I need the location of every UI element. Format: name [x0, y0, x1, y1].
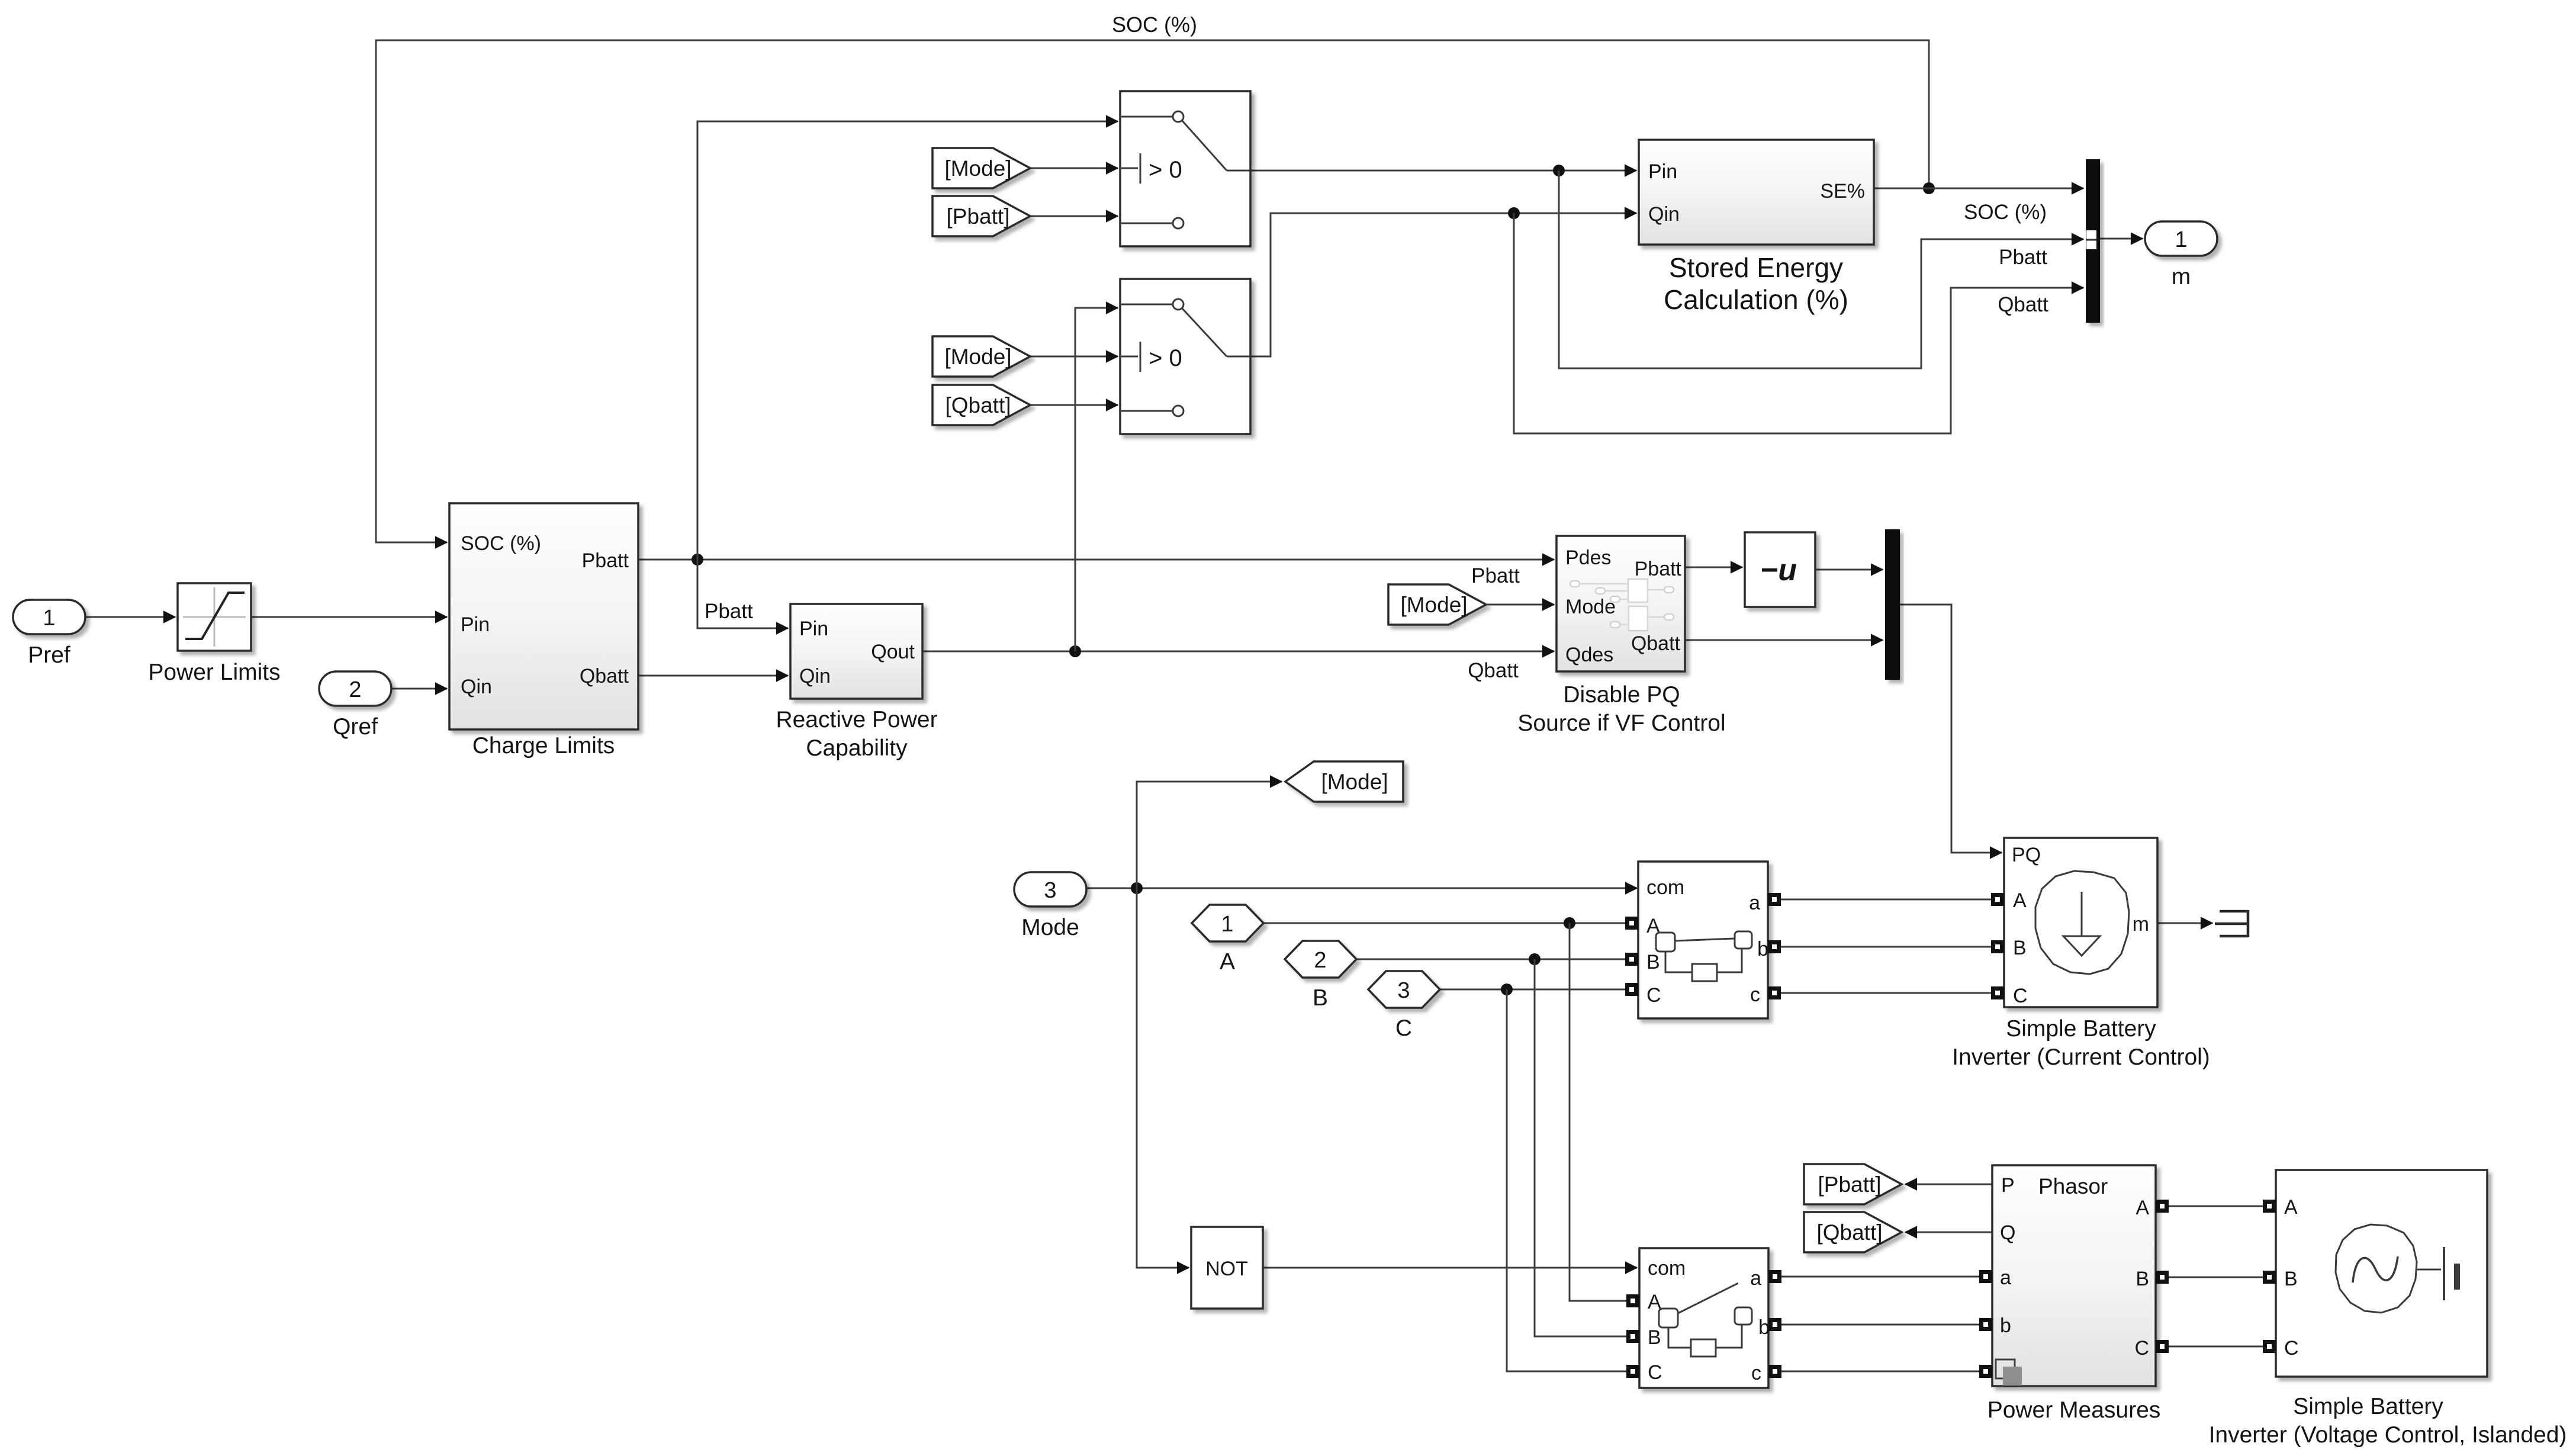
wire phase A branch down to Breaker2 A — [1570, 923, 1626, 1301]
svg-text:Qbatt: Qbatt — [1631, 632, 1681, 655]
svg-text:com: com — [1646, 876, 1684, 899]
block Power Limits (saturation) — [178, 583, 251, 651]
svg-text:B: B — [1313, 985, 1328, 1011]
node phase A junction — [1564, 917, 1575, 929]
label Charge Limits — [472, 733, 615, 758]
wire Power Measures P to Goto Pbatt — [1905, 1184, 1992, 1185]
switch block Switch1 — [1120, 91, 1250, 246]
wire Disable PQ Pbatt to gain — [1685, 567, 1742, 568]
svg-text:Pin: Pin — [1648, 160, 1677, 183]
svg-text:C: C — [2134, 1337, 2149, 1359]
wire From Mode to Switch2 control — [1030, 356, 1118, 358]
svg-text:Disable PQ: Disable PQ — [1563, 682, 1680, 708]
svg-text:Mode: Mode — [1021, 915, 1079, 940]
svg-text:a: a — [2000, 1267, 2011, 1289]
label Qbatt near Qdes — [1468, 659, 1519, 682]
label Disable PQ Source if VF Control — [1517, 682, 1725, 736]
wire phase C branch down to Breaker2 C — [1507, 989, 1626, 1371]
svg-text:Calculation (%): Calculation (%) — [1664, 284, 1848, 315]
svg-text:SOC (%): SOC (%) — [1964, 201, 2047, 224]
node phase B junction — [1529, 953, 1541, 965]
svg-text:Pbatt: Pbatt — [1635, 558, 1682, 580]
svg-text:Pbatt: Pbatt — [1471, 564, 1520, 587]
from tag Pbatt (switch1) — [932, 196, 1030, 236]
switch block Switch2 — [1120, 279, 1250, 434]
goto tag Pbatt (right) — [1804, 1164, 1902, 1204]
label A — [1220, 949, 1235, 975]
wire Qref to Charge Limits Qin — [391, 688, 447, 690]
svg-text:Qbatt: Qbatt — [1468, 659, 1519, 682]
label C — [1395, 1015, 1412, 1041]
label Pbatt near mux — [1999, 246, 2047, 269]
svg-text:m: m — [2133, 913, 2149, 936]
block Disable PQ Source if VF Control — [1556, 536, 1685, 671]
node phase C junction — [1501, 983, 1513, 995]
svg-text:C: C — [1648, 1361, 1662, 1384]
svg-text:SOC (%): SOC (%) — [461, 532, 541, 555]
svg-text:> 0: > 0 — [1149, 345, 1182, 371]
svg-text:a: a — [1749, 892, 1760, 914]
label B — [1313, 985, 1328, 1011]
mux Mux1 — [2086, 159, 2100, 323]
breaker block Breaker1 — [1638, 862, 1768, 1018]
from tag Mode (switch2) — [932, 336, 1030, 377]
wire Qbatt loop to Mux1 input 3 — [1514, 213, 2083, 433]
svg-text:Source if VF Control: Source if VF Control — [1517, 711, 1725, 736]
svg-text:[Pbatt]: [Pbatt] — [947, 204, 1010, 229]
inport Pref — [13, 600, 85, 634]
wire From Pbatt to Switch1 input 3 — [1030, 216, 1118, 217]
wire Breaker2 b to Power Measures b — [1781, 1324, 1979, 1326]
svg-text:1: 1 — [43, 606, 55, 631]
wire SE% to Mux1 input 1 — [1874, 188, 2083, 189]
svg-text:A: A — [2284, 1196, 2298, 1219]
svg-text:c: c — [1751, 1362, 1761, 1384]
wire Breaker1 b to Inverter1 B — [1781, 946, 1991, 948]
node SOC junction on SE% wire — [1923, 182, 1935, 194]
svg-text:[Pbatt]: [Pbatt] — [1818, 1172, 1882, 1197]
hexagon port 3 C — [1368, 971, 1440, 1008]
svg-text:Qin: Qin — [461, 676, 492, 698]
svg-text:> 0: > 0 — [1149, 157, 1182, 183]
svg-text:3: 3 — [1397, 978, 1410, 1003]
svg-text:[Mode]: [Mode] — [944, 345, 1011, 369]
node Qout junction — [1069, 645, 1081, 657]
svg-text:Stored Energy: Stored Energy — [1669, 252, 1843, 283]
from tag Mode (switch1) — [932, 148, 1030, 188]
block Reactive Power Capability — [790, 604, 922, 699]
svg-text:Pbatt: Pbatt — [1999, 246, 2047, 269]
svg-text:B: B — [2284, 1268, 2298, 1290]
svg-text:Inverter (Voltage Control, Isl: Inverter (Voltage Control, Islanded) — [2209, 1422, 2567, 1448]
svg-text:b: b — [2000, 1314, 2011, 1337]
svg-text:a: a — [1750, 1267, 1761, 1290]
wire RPC Qout to Disable PQ Qdes — [922, 651, 1554, 653]
svg-text:NOT: NOT — [1205, 1258, 1248, 1280]
node Mode junction — [1131, 882, 1143, 894]
svg-text:Power Limits: Power Limits — [148, 660, 280, 685]
pads Breaker2 right a b c — [1768, 1270, 1781, 1378]
goto tag Qbatt (right) — [1804, 1212, 1902, 1252]
node Pin junction — [1553, 165, 1565, 176]
wire Power Limits to Charge Limits Pin — [251, 616, 447, 618]
hexagon port 2 B — [1285, 941, 1356, 978]
block Simple Battery Inverter (Voltage Control, Islanded) — [2276, 1170, 2487, 1377]
wire From Mode to Switch1 control — [1030, 168, 1118, 169]
svg-text:2: 2 — [349, 677, 361, 702]
svg-text:B: B — [2013, 937, 2027, 959]
wire Mux2 to inverter PQ — [1900, 605, 2002, 853]
wire Qout branch up to Switch2 input 1 — [1075, 308, 1118, 651]
wire From Mode to Disable PQ Mode — [1486, 604, 1554, 606]
svg-text:A: A — [2013, 889, 2027, 912]
svg-text:Qin: Qin — [799, 665, 831, 687]
NOT block — [1191, 1227, 1263, 1309]
wire Power Measures A to Inverter2 A — [2169, 1206, 2263, 1207]
svg-text:Capability: Capability — [806, 735, 908, 761]
wire Pbatt from Charge Limits to Disable PQ Pdes — [638, 559, 1554, 561]
terminator — [2215, 910, 2248, 937]
svg-text:1: 1 — [1221, 912, 1233, 937]
svg-text:PQ: PQ — [2012, 844, 2041, 866]
mux Mux2 — [1885, 529, 1900, 680]
wire Qbatt from Charge Limits to RPC Qin — [638, 675, 788, 677]
svg-text:[Qbatt]: [Qbatt] — [1816, 1220, 1882, 1245]
wire Breaker2 c to Power Measures c — [1781, 1371, 1979, 1373]
label Mode — [1021, 915, 1079, 940]
svg-text:C: C — [1646, 984, 1661, 1007]
pads Breaker1 right a b c — [1768, 893, 1781, 999]
svg-text:A: A — [1220, 949, 1235, 975]
svg-text:Pin: Pin — [799, 618, 828, 640]
svg-text:Pbatt: Pbatt — [582, 549, 629, 572]
svg-text:Reactive Power: Reactive Power — [776, 707, 937, 732]
pads Breaker1 left A B C — [1625, 917, 1638, 996]
svg-text:Q: Q — [2000, 1222, 2015, 1244]
label Pbatt near Pdes — [1471, 564, 1520, 587]
svg-text:Qout: Qout — [871, 641, 915, 663]
block Power Measures — [1992, 1165, 2156, 1386]
svg-text:b: b — [1758, 1316, 1770, 1339]
svg-text:Pdes: Pdes — [1565, 547, 1612, 569]
svg-text:[Qbatt]: [Qbatt] — [945, 393, 1011, 417]
svg-text:SOC (%): SOC (%) — [1112, 12, 1197, 37]
from tag Qbatt (switch2) — [932, 385, 1030, 425]
svg-text:m: m — [2172, 264, 2191, 290]
inport Qref — [319, 671, 391, 706]
wire Mode branch down to NOT — [1137, 888, 1189, 1268]
wire Power Measures C to Inverter2 C — [2169, 1346, 2263, 1348]
from tag Mode (Disable PQ) — [1388, 584, 1486, 625]
label Qref — [333, 714, 378, 740]
svg-text:Pref: Pref — [28, 642, 70, 668]
svg-text:Qbatt: Qbatt — [1998, 293, 2048, 316]
label SOC (%) near mux — [1964, 201, 2047, 224]
svg-text:Phasor: Phasor — [2038, 1174, 2108, 1198]
svg-text:B: B — [2136, 1268, 2149, 1290]
breaker block Breaker2 — [1639, 1248, 1770, 1388]
svg-text:Qref: Qref — [333, 714, 378, 740]
label Simple Battery Inverter (Current Control) — [1952, 1016, 2210, 1070]
svg-text:Qdes: Qdes — [1565, 644, 1613, 666]
block Charge Limits — [449, 503, 638, 729]
pads Power Measures right A B C — [2156, 1200, 2169, 1353]
label Pbatt near RPC — [705, 600, 753, 623]
svg-text:Qin: Qin — [1648, 203, 1680, 226]
label Simple Battery Inverter (Voltage Control, Islanded) — [2209, 1394, 2567, 1448]
label Stored Energy Calculation (%) — [1664, 252, 1848, 315]
svg-text:Qbatt: Qbatt — [580, 665, 629, 687]
svg-text:P: P — [2001, 1174, 2015, 1197]
wire Switch2 out to Stored Energy Qin — [1250, 213, 1636, 356]
wire Breaker2 a to Power Measures a — [1781, 1276, 1979, 1278]
wire gain to Mux2 input 1 — [1815, 569, 1883, 571]
wire Power Measures Q to Goto Qbatt — [1905, 1232, 1992, 1233]
wire Breaker1 a to Inverter1 A — [1781, 899, 1991, 901]
svg-text:[Mode]: [Mode] — [944, 156, 1011, 181]
label Power Limits — [148, 660, 280, 685]
svg-text:Inverter (Current Control): Inverter (Current Control) — [1952, 1044, 2210, 1070]
svg-text:B: B — [1646, 951, 1660, 973]
wire Disable PQ Qbatt to Mux2 input 2 — [1685, 639, 1883, 641]
block Simple Battery Inverter (Current Control) — [2004, 838, 2157, 1007]
node Pbatt junction — [692, 554, 703, 565]
gain block -u — [1745, 532, 1815, 607]
svg-text:3: 3 — [1044, 878, 1056, 903]
goto tag Mode (lower) — [1285, 761, 1403, 802]
outport m — [2145, 221, 2217, 256]
wire Pbatt loop to Mux1 input 2 — [1559, 171, 2083, 368]
svg-text:C: C — [2284, 1337, 2299, 1359]
svg-text:b: b — [1757, 938, 1768, 960]
pads Inverter1 left A B C — [1991, 893, 2004, 999]
svg-text:c: c — [1750, 983, 1760, 1006]
svg-text:Pbatt: Pbatt — [705, 600, 753, 623]
wire Switch1 out to Stored Energy Pin — [1250, 170, 1636, 172]
inport Mode — [1014, 872, 1086, 907]
wire Mode branch up to Goto Mode — [1137, 782, 1282, 888]
node Qin junction — [1508, 207, 1520, 219]
wire Mode inport to Breaker1 com — [1086, 888, 1637, 889]
label Power Measures — [1988, 1397, 2161, 1423]
wire phase B from hexagon 2 to Breaker1 B — [1356, 959, 1626, 960]
pads Inverter2 left A B C — [2263, 1200, 2276, 1353]
svg-text:−u: −u — [1760, 553, 1797, 587]
wire From Qbatt to Switch2 input 3 — [1030, 404, 1118, 406]
wire Breaker1 c to Inverter1 C — [1781, 992, 1991, 994]
label Qbatt near mux — [1998, 293, 2048, 316]
label Reactive Power Capability — [776, 707, 937, 761]
svg-text:C: C — [2013, 985, 2028, 1007]
block Stored Energy Calculation — [1639, 140, 1874, 245]
svg-text:1: 1 — [2175, 227, 2187, 252]
svg-text:[Mode]: [Mode] — [1400, 593, 1467, 617]
wire phase A from hexagon 1 to Breaker1 A — [1263, 923, 1626, 924]
hexagon port 1 A — [1192, 905, 1263, 941]
wire Inverter1 m to terminator — [2157, 923, 2212, 924]
svg-text:[Mode]: [Mode] — [1321, 770, 1388, 794]
wire Pref to Power Limits — [85, 616, 175, 618]
wire phase B branch down to Breaker2 B — [1535, 959, 1626, 1336]
wire Pbatt branch up to Switch1 input 1 — [697, 121, 1118, 560]
svg-text:SE%: SE% — [1820, 180, 1865, 203]
svg-text:Simple Battery: Simple Battery — [2293, 1394, 2443, 1419]
svg-text:2: 2 — [1314, 948, 1326, 973]
svg-text:C: C — [1395, 1015, 1412, 1041]
pads Power Measures left a b c — [1979, 1270, 1992, 1378]
wire NOT to Breaker2 com — [1263, 1267, 1637, 1269]
svg-text:B: B — [1648, 1326, 1661, 1349]
label m — [2172, 264, 2191, 290]
svg-text:Pin: Pin — [461, 613, 490, 636]
svg-text:Charge Limits: Charge Limits — [472, 733, 615, 758]
pads Breaker2 left A B C — [1626, 1294, 1639, 1378]
svg-text:Simple Battery: Simple Battery — [2006, 1016, 2156, 1042]
label Pref — [28, 642, 70, 668]
wire Power Measures B to Inverter2 B — [2169, 1277, 2263, 1278]
wire Pbatt branch down to Reactive Power Capability Pin — [697, 560, 788, 628]
wire Mux1 to outport m — [2100, 238, 2143, 240]
label SOC (%) top — [1112, 12, 1197, 37]
svg-text:Power Measures: Power Measures — [1988, 1397, 2161, 1423]
svg-text:com: com — [1648, 1257, 1686, 1280]
wire SOC feedback top loop — [376, 40, 1929, 542]
wire phase C from hexagon 3 to Breaker1 C — [1440, 989, 1626, 991]
svg-text:A: A — [2136, 1197, 2149, 1219]
svg-text:Mode: Mode — [1565, 596, 1616, 618]
